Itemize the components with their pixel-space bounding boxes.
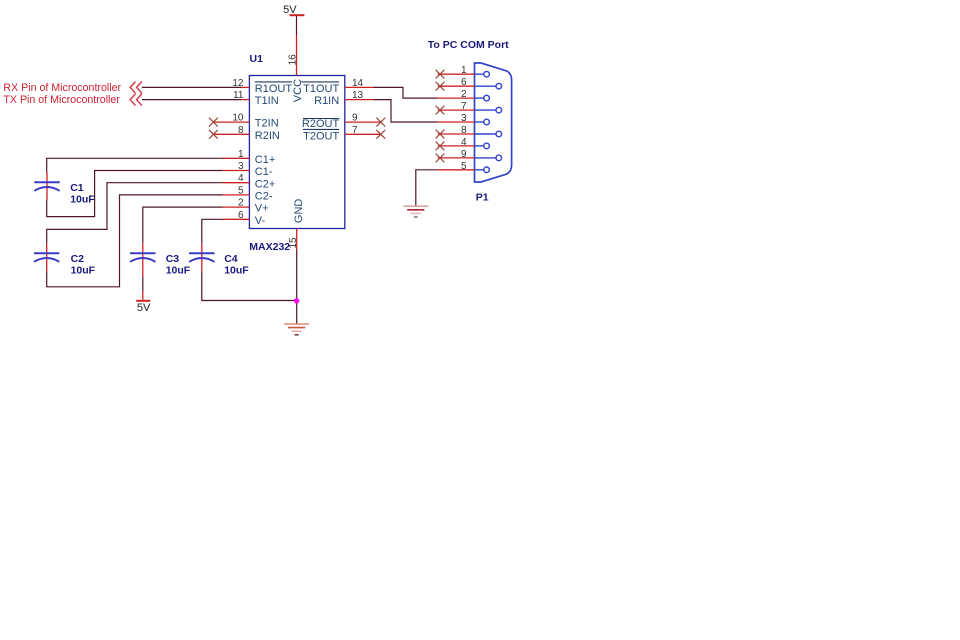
svg-text:U1: U1 [250,53,264,65]
svg-text:T2IN: T2IN [255,118,279,130]
svg-text:2: 2 [238,198,244,209]
svg-text:T2OUT: T2OUT [303,130,339,142]
svg-text:P1: P1 [476,192,489,204]
svg-text:C2+: C2+ [255,178,275,190]
svg-text:12: 12 [232,78,244,89]
svg-text:14: 14 [352,78,364,89]
svg-text:C2-: C2- [255,191,273,203]
svg-text:6: 6 [238,210,244,221]
svg-text:C1-: C1- [255,166,273,178]
svg-text:MAX232: MAX232 [249,241,290,253]
svg-text:C2: C2 [71,253,85,265]
svg-text:GND: GND [293,199,305,224]
svg-text:C4: C4 [224,253,238,265]
svg-text:8: 8 [238,125,244,136]
svg-text:C3: C3 [166,253,180,265]
svg-text:4: 4 [461,137,467,148]
svg-text:3: 3 [461,113,467,124]
svg-text:VCC: VCC [292,79,304,102]
svg-text:11: 11 [233,90,244,101]
svg-text:5: 5 [238,185,244,196]
svg-text:10: 10 [232,113,244,124]
svg-text:5: 5 [461,161,467,172]
svg-text:C1: C1 [70,182,84,194]
svg-text:4: 4 [238,173,244,184]
svg-text:R2IN: R2IN [255,130,280,142]
svg-text:V-: V- [255,215,266,227]
svg-text:10uF: 10uF [224,265,249,277]
svg-text:1: 1 [461,65,467,76]
svg-text:9: 9 [461,149,467,160]
svg-text:RX Pin of Microcontroller: RX Pin of Microcontroller [3,82,121,94]
svg-text:1: 1 [238,149,244,160]
svg-text:10uF: 10uF [70,194,95,206]
svg-text:9: 9 [352,113,358,124]
svg-text:5V: 5V [137,302,151,314]
svg-text:2: 2 [461,89,467,100]
svg-text:10uF: 10uF [71,265,96,277]
svg-text:TX Pin of Microcontroller: TX Pin of Microcontroller [3,94,120,106]
svg-text:R1IN: R1IN [314,95,339,107]
svg-text:V+: V+ [255,203,269,215]
svg-text:T1OUT: T1OUT [303,83,339,95]
svg-text:T1IN: T1IN [255,95,279,107]
svg-text:5V: 5V [283,4,297,16]
svg-text:3: 3 [238,161,244,172]
svg-text:To PC COM Port: To PC COM Port [428,39,509,51]
svg-text:16: 16 [287,54,298,66]
svg-text:R1OUT: R1OUT [255,83,293,95]
svg-text:R2OUT: R2OUT [302,118,340,130]
svg-text:6: 6 [461,77,467,88]
svg-text:10uF: 10uF [166,265,191,277]
svg-text:7: 7 [352,125,358,136]
svg-text:7: 7 [461,101,467,112]
svg-text:C1+: C1+ [255,154,275,166]
svg-text:8: 8 [461,125,467,136]
svg-text:13: 13 [352,90,364,101]
